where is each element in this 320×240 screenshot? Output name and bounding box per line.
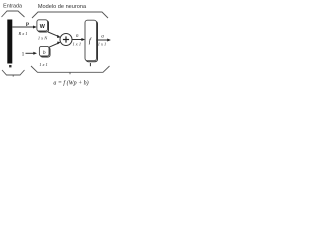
wire a (output)	[97, 39, 108, 41]
underbrace neuron section	[31, 66, 110, 72]
svg-text:R x 1: R x 1	[17, 31, 27, 36]
wire n (summer to f)	[72, 39, 82, 41]
bias box b shadow	[40, 47, 50, 57]
transfer box f	[85, 20, 97, 61]
bias box b	[39, 46, 49, 56]
tick under f box	[89, 63, 91, 66]
svg-text:1 x 1: 1 x 1	[73, 41, 82, 46]
svg-text:Entrada: Entrada	[3, 4, 22, 10]
wire b to summer	[49, 43, 59, 47]
summer circle	[60, 34, 72, 46]
svg-text:1: 1	[22, 51, 25, 57]
svg-text:b: b	[43, 50, 46, 56]
transfer box f shadow	[86, 21, 98, 62]
weight box W	[37, 20, 48, 31]
svg-text:a = f (Wp + b): a = f (Wp + b)	[53, 79, 88, 86]
wire p (input to W)	[12, 26, 33, 28]
svg-text:p: p	[26, 21, 29, 27]
svg-text:1 x N: 1 x N	[38, 36, 48, 41]
overbrace input section	[2, 11, 25, 17]
weight box W shadow	[38, 21, 49, 32]
svg-text:1 x 1: 1 x 1	[39, 62, 48, 67]
tiny label under bar	[9, 65, 11, 67]
svg-text:1 x 1: 1 x 1	[98, 42, 107, 47]
input bar p	[7, 20, 12, 64]
plus sign	[63, 39, 69, 41]
wire bias 1 to b	[26, 52, 34, 54]
svg-text:Modelo de neurona: Modelo de neurona	[38, 4, 87, 10]
overbrace neuron section	[32, 12, 108, 18]
underbrace input section	[2, 70, 25, 75]
svg-text:W: W	[40, 24, 46, 30]
wire W to summer	[48, 32, 58, 36]
svg-text:a: a	[101, 34, 104, 40]
